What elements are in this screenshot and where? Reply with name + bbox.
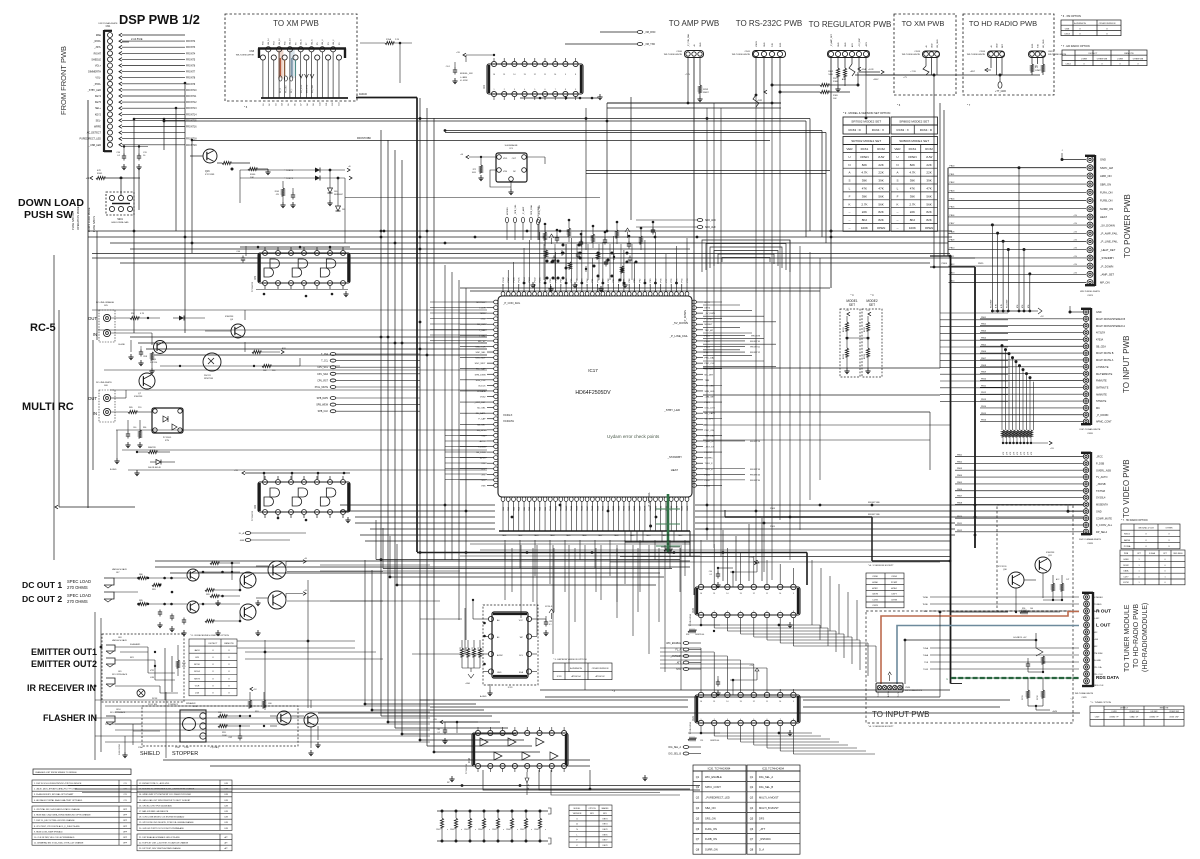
svg-text:AT24C02: AT24C02: [595, 675, 605, 678]
connector CN28 TO VIDEO PWB: [1090, 452, 1092, 535]
svg-text:RC-LINK-ORANGE: RC-LINK-ORANGE: [96, 301, 115, 304]
svg-text:C/M: C/M: [224, 822, 228, 824]
svg-text:SPB_LED: SPB_LED: [705, 391, 715, 393]
oval terminal group DIG_SEL: [683, 746, 689, 749]
svg-text:O: O: [1079, 34, 1081, 36]
svg-text:FL_A: FL_A: [239, 532, 245, 535]
svg-text:ROM2: ROM2: [1123, 565, 1128, 567]
wires into TO POWER PWB connector: [1062, 159, 1086, 161]
svg-text:KTA1298: KTA1298: [134, 395, 143, 398]
svg-text:MP_ON: MP_ON: [1100, 281, 1110, 285]
vertical drops from power wires to +5V rail: [991, 223, 994, 226]
svg-text:FRONT35: FRONT35: [750, 480, 761, 482]
svg-text:x: x: [447, 829, 448, 831]
svg-text:_USB_LED: _USB_LED: [88, 144, 101, 147]
buffer IC18 bottom: [472, 733, 568, 766]
svg-text:R102: R102: [450, 829, 454, 831]
svg-text:A VERSION: A VERSION: [1074, 22, 1086, 25]
svg-text:PA35: PA35: [681, 505, 684, 511]
wires connecting bottom ICs to IC17 area: [722, 530, 724, 581]
svg-text:Q8: Q8: [750, 848, 754, 852]
svg-text:GND: GND: [1096, 311, 1102, 314]
svg-text:FROM FRONT PWB: FROM FRONT PWB: [59, 46, 68, 115]
svg-text:RC64: RC64: [864, 353, 866, 359]
svg-text:FRONT6: FRONT6: [186, 66, 196, 68]
svg-text:OTHER VERSION: OTHER VERSION: [592, 668, 609, 670]
svg-text:18. CON & USB MODEL COLTE/Z963: 18. CON & USB MODEL COLTE/Z963 MODA ADD: [139, 816, 185, 819]
wires from CN1 to FRONT net labels: [122, 34, 185, 36]
svg-text:AT24C04: AT24C04: [571, 675, 581, 678]
svg-text:* 6: * 6: [244, 105, 248, 109]
svg-text:FLRB_ON: FLRB_ON: [705, 837, 717, 841]
svg-text:POWA: POWA: [1124, 545, 1131, 548]
svg-text:GND: GND: [764, 42, 766, 47]
eeprom IC19: [492, 612, 528, 678]
resistor R65: [111, 411, 128, 413]
svg-text:AC_DETECT: AC_DETECT: [87, 132, 102, 135]
svg-text:AVSS: AVSS: [480, 457, 486, 460]
emitter wires: [115, 646, 148, 648]
svg-text:DSP-TLINAD-WHITE: DSP-TLINAD-WHITE: [1080, 428, 1101, 431]
svg-text:JUMP: JUMP: [1035, 70, 1041, 72]
svg-text:MD_SET: MD_SET: [705, 369, 715, 371]
svg-text:23. DIP TEST, DRV JI98/78-/H78: 23. DIP TEST, DRV JI98/78-/H78B/B CHANGE: [139, 847, 181, 850]
svg-text:14: 14: [513, 74, 515, 76]
svg-text:TO XM PWB: TO XM PWB: [902, 19, 945, 28]
capacitor near IC5: [245, 246, 247, 256]
svg-text:FA05: FA05: [566, 534, 570, 537]
svg-text:A-GND: A-GND: [480, 695, 487, 698]
svg-text:RC/JUMP: RC/JUMP: [990, 299, 992, 308]
svg-text:1: 1: [1138, 582, 1139, 584]
svg-text:12: 12: [534, 74, 536, 76]
svg-text:FRONT4: FRONT4: [186, 53, 196, 55]
eeprom cap: [544, 621, 548, 623]
svg-text:VER: VER: [894, 147, 901, 151]
svg-text:KEY: KEY: [130, 657, 135, 659]
svg-text:8K2: 8K2: [862, 218, 868, 222]
svg-text:OPEN: OPEN: [877, 226, 886, 230]
svg-text:G5: G5: [288, 103, 290, 106]
bus horizontal y231: [88, 230, 952, 232]
svg-text:_PUREDIRECT_LED: _PUREDIRECT_LED: [704, 796, 730, 800]
svg-text:PB01: PB01: [981, 317, 987, 319]
svg-text:T_JDA: T_JDA: [321, 353, 328, 356]
svg-text:G1: G1: [263, 103, 265, 106]
svg-text:Q6: Q6: [750, 827, 754, 831]
extra verticals below IC17: [511, 548, 513, 592]
svg-text:* 7 . HD RADIO OPTION: * 7 . HD RADIO OPTION: [1061, 44, 1090, 48]
flasher wires: [115, 723, 142, 725]
junction dots on vertical bundles: [419, 248, 422, 251]
svg-text:FRONT3: FRONT3: [186, 47, 196, 49]
svg-text:G2: G2: [269, 103, 271, 106]
svg-text:MODEL: MODEL: [574, 808, 581, 810]
svg-text:RC/JUMP: RC/JUMP: [1006, 299, 1008, 308]
svg-text:2-10.5V/E: 2-10.5V/E: [131, 37, 143, 41]
svg-text:SEL+: SEL+: [95, 107, 102, 110]
svg-text:9: 9: [565, 74, 566, 76]
svg-text:MC: MC: [1094, 632, 1098, 634]
svg-text:SR8002 MODE2 SET: SR8002 MODE2 SET: [899, 120, 929, 124]
gnd shield: [124, 736, 126, 752]
svg-text:PUSH SW: PUSH SW: [24, 209, 73, 221]
svg-text:DETECT: DETECT: [209, 643, 218, 645]
svg-text:_STANDBY: _STANDBY: [1099, 256, 1114, 260]
svg-text:KEY4: KEY4: [95, 95, 102, 98]
svg-text:VOL+: VOL+: [95, 65, 102, 68]
diode D5 rc5: [173, 317, 179, 319]
svg-text:Uydam error check points: Uydam error check points: [607, 434, 660, 439]
svg-text:FRONT10: FRONT10: [750, 341, 761, 343]
colored wire red XM: [279, 58, 281, 76]
svg-text:TUNE: TUNE: [923, 597, 929, 599]
flasher speaker box: [180, 710, 206, 742]
vertical bundle x95-120 bottom left: [94, 612, 96, 760]
svg-text:P102: P102: [534, 277, 536, 283]
svg-text:NC_CLK: NC_CLK: [477, 324, 486, 326]
svg-text:5: 5: [753, 719, 754, 721]
svg-text:* 9 . MODEL & VERSION SET OPTI: * 9 . MODEL & VERSION SET OPTION: [843, 111, 890, 115]
svg-text:OTHER VER: OTHER VER: [1133, 59, 1144, 61]
svg-text:LINKED : PP: LINKED : PP: [1149, 717, 1158, 719]
svg-text:1: 1: [1138, 559, 1139, 561]
wires from IC20 right edge to input connector: [819, 625, 821, 640]
connector CN14 TO HD RADIO PWB: [988, 51, 1005, 58]
svg-text:_AMP_SET: _AMP_SET: [1099, 273, 1114, 277]
svg-text:4. HD RADIO PORTAL SEAL DUAL/T: 4. HD RADIO PORTAL SEAL DUAL/TEST OPTN A…: [34, 799, 83, 802]
svg-text:G6: G6: [294, 103, 296, 106]
svg-text:_SST_ST: _SST_ST: [704, 447, 715, 449]
bus horizontal y505-532 under IC17: [340, 504, 495, 506]
svg-text:* 7 . HD RADIO OPTION: * 7 . HD RADIO OPTION: [1121, 519, 1148, 522]
svg-text:270 OHMS: 270 OHMS: [67, 585, 88, 590]
bus lines y253-267 left to center: [92, 253, 950, 255]
svg-text:PUSH S/W OUT: PUSH S/W OUT: [71, 211, 75, 230]
junction wiring rc5 mid: [160, 365, 300, 367]
svg-text:RDS CLK: RDS CLK: [1094, 685, 1104, 687]
svg-text:Q2: Q2: [750, 785, 754, 789]
svg-text:L-MC: L-MC: [1094, 618, 1100, 620]
svg-text:PB25: PB25: [978, 263, 984, 265]
svg-text:1. DSP 9L 9CH LCD8624TMY/VC-/9: 1. DSP 9L 9CH LCD8624TMY/VC-/9TF7100 DEV…: [34, 783, 82, 785]
svg-text:PA29: PA29: [649, 505, 652, 511]
svg-text:4.7K: 4.7K: [909, 171, 915, 175]
svg-text:A-GND: A-GND: [887, 691, 890, 697]
long wires lower area to right: [420, 699, 688, 701]
XM connector bottom bus: [261, 97, 348, 99]
tuner area misc wiring: [905, 640, 1036, 684]
svg-text:_HEAT_DET: _HEAT_DET: [1099, 248, 1116, 252]
svg-text:0: 0: [1138, 576, 1139, 578]
svg-text:C/M: C/M: [224, 800, 228, 802]
svg-text:FA02: FA02: [518, 534, 522, 537]
svg-text:R72: R72: [473, 169, 476, 171]
svg-text:56K: 56K: [926, 194, 931, 198]
svg-text:IR RECEIVER IN: IR RECEIVER IN: [27, 683, 96, 693]
svg-text:TC74HC4094: TC74HC4094: [690, 721, 692, 734]
wires from IC17 top pins upward: [502, 284, 504, 286]
svg-text:A5V: A5V: [851, 43, 854, 47]
verticals lower-left: [165, 692, 167, 758]
svg-text:10. CLK FILTER, VIDL COI LEVT/: 10. CLK FILTER, VIDL COI LEVT/KBNB ADD: [34, 836, 75, 839]
svg-text:DATA: DATA: [1124, 570, 1129, 573]
svg-text:PB12: PB12: [981, 392, 987, 394]
diode D4 key cluster: [337, 178, 339, 206]
wires left edge to bottom: [164, 648, 166, 700]
horizontal lines under buffer IC: [68, 785, 700, 787]
vertical bus upper x948: [947, 168, 949, 256]
svg-text:PRC_ON: PRC_ON: [705, 430, 715, 432]
arrow +B key cluster: [347, 168, 350, 172]
svg-text:CN7B: CN7B: [872, 594, 878, 596]
svg-text:K: K: [848, 202, 850, 206]
svg-text:OTHER VER: OTHER VER: [1169, 711, 1180, 713]
svg-text:FRONT5: FRONT5: [186, 59, 196, 61]
terminal _XM_TXD: [637, 43, 643, 46]
svg-text:MARKS: MARKS: [602, 807, 609, 810]
svg-text:DFS: DFS: [759, 816, 764, 820]
svg-text:9: 9: [793, 593, 794, 595]
dashed box TO HD RADIO PWB: [963, 14, 1054, 95]
svg-text:FA06: FA06: [582, 534, 586, 537]
svg-text:10: 10: [779, 593, 781, 595]
svg-text:XM_4: XM_4: [322, 39, 324, 45]
multi rc gnd: [116, 430, 118, 458]
svg-text:XM_6: XM_6: [311, 39, 313, 45]
svg-text:_P_CON_FAIL: _P_CON_FAIL: [687, 33, 690, 48]
svg-text:DSP-CLEMAR-WHITE: DSP-CLEMAR-WHITE: [1079, 538, 1102, 541]
wire FRONT15B long: [192, 140, 770, 142]
svg-text:4.7K: 4.7K: [140, 313, 145, 315]
jack DC OUT 1: [104, 578, 114, 585]
svg-text:9: 9: [575, 89, 576, 91]
svg-text:3: 3: [727, 719, 728, 721]
svg-text:PB06: PB06: [957, 489, 963, 491]
svg-text:(HD-RADIOMODULE): (HD-RADIOMODULE): [1142, 603, 1149, 672]
bottom-left long horizontals lower: [95, 699, 430, 701]
svg-text:CN14: CN14: [1065, 64, 1071, 66]
svg-text:SPKC_CONT: SPKC_CONT: [705, 785, 721, 789]
wires center to tuner area: [540, 689, 950, 691]
svg-text:A: A: [848, 171, 850, 175]
svg-text:Q7: Q7: [750, 837, 754, 841]
svg-text:T_DWN: T_DWN: [478, 447, 486, 449]
svg-text:_XM_RXD: _XM_RXD: [643, 31, 656, 34]
svg-text:G3: G3: [275, 103, 277, 106]
connector CN26 TO INPUT PWB: [1090, 308, 1092, 425]
svg-text:TU6A: TU6A: [923, 654, 929, 657]
svg-text:WR-TLINSK-WHITE: WR-TLINSK-WHITE: [732, 54, 751, 56]
transistor q dc2 c: [268, 591, 286, 609]
svg-text:SBA_ON: SBA_ON: [705, 806, 716, 810]
wire vertical x607: [606, 103, 608, 231]
bus pair y130-132: [445, 130, 822, 132]
capacitor C30 near CN1: [122, 146, 148, 148]
svg-text:PB12: PB12: [705, 341, 711, 343]
svg-text:17. BA3 4/49 BBD LHE MELETE: 17. BA3 4/49 BBD LHE MELETE: [139, 810, 169, 813]
diode D3 key cluster: [329, 170, 331, 188]
resistor R15A right of XM box: [360, 42, 385, 44]
svg-text:8K2: 8K2: [910, 218, 916, 222]
component cluster above IC17: [543, 232, 546, 240]
svg-text:4: 4: [740, 611, 741, 613]
svg-text:NTR: NTR: [676, 669, 681, 671]
svg-text:KEY7: KEY7: [603, 840, 608, 842]
svg-text:Q16: Q16: [205, 170, 210, 173]
svg-text:LCDR: LCDR: [480, 308, 486, 310]
svg-text:x: x: [489, 829, 490, 831]
svg-text:REMOTE: REMOTE: [1124, 53, 1134, 55]
svg-text:SB_SET: SB_SET: [477, 424, 486, 426]
svg-text:8: 8: [575, 74, 576, 76]
resistor RS232 line1: [772, 84, 820, 86]
svg-text:RC63 : X: RC63 : X: [897, 128, 909, 132]
svg-text:7: 7: [555, 89, 556, 91]
svg-text:* 5 . TUNER OPTION: * 5 . TUNER OPTION: [1090, 702, 1111, 704]
svg-text:PB05: PB05: [981, 344, 987, 346]
wires lower right loops: [820, 560, 958, 625]
dashed box TO XM PWB: [225, 14, 357, 101]
svg-text:SC/PRC: SC/PRC: [705, 458, 714, 460]
svg-text:IC21 TC74HC4094: IC21 TC74HC4094: [762, 767, 785, 771]
IC20 support parts: [754, 561, 757, 565]
svg-text:x: x: [517, 829, 518, 831]
opto coupler PC7: [152, 408, 183, 433]
svg-text:U VER: U VER: [1081, 59, 1088, 61]
svg-text:LINKED : PP: LINKED : PP: [1109, 717, 1118, 719]
svg-text:2: 2: [714, 719, 715, 721]
dc2 wires: [199, 603, 240, 605]
svg-text:+7V: +7V: [903, 77, 907, 79]
svg-text:G8: G8: [307, 103, 309, 106]
svg-text:82K: 82K: [910, 163, 915, 167]
svg-text:OPP: OPP: [123, 837, 128, 839]
svg-text:PB33: PB33: [705, 485, 711, 487]
svg-text:EMITTER OUT2: EMITTER OUT2: [31, 659, 97, 669]
svg-text:CN26: CN26: [1087, 433, 1093, 435]
svg-text:2.7K: 2.7K: [861, 202, 867, 206]
svg-text:L/TRMUTE: L/TRMUTE: [1096, 366, 1109, 369]
svg-text:K: K: [896, 202, 898, 206]
jack emitter 2: [106, 658, 115, 664]
svg-text:WIC_ENABLE: WIC_ENABLE: [666, 642, 681, 645]
transistor Q7 multi: [139, 373, 155, 389]
svg-text:--: --: [897, 218, 899, 222]
svg-text:PHOTO: PHOTO: [204, 375, 212, 377]
resistor RS232 line2: [780, 91, 820, 93]
wire key cluster down: [344, 178, 346, 243]
svg-text:6: 6: [767, 611, 768, 613]
svg-text:O: O: [212, 664, 214, 666]
svg-text:39K: 39K: [910, 179, 915, 183]
table model option marks: [569, 805, 612, 847]
svg-text:* 7 KEY9: * 7 KEY9: [284, 178, 294, 180]
svg-text:S901: S901: [117, 218, 123, 221]
svg-text:PA27: PA27: [638, 505, 641, 511]
svg-text:REMOTE: REMOTE: [224, 643, 234, 645]
svg-text:R96: R96: [1022, 608, 1025, 610]
svg-text:TO POWER PWB: TO POWER PWB: [1123, 194, 1132, 258]
connector CN15 TO HD RADIO PWB: [1029, 51, 1046, 58]
svg-text:_DM_SET: _DM_SET: [704, 397, 716, 399]
svg-text:R105: R105: [492, 829, 496, 831]
svg-text:1: 1: [701, 611, 702, 613]
svg-text:GND: GND: [481, 319, 486, 321]
dc1 wires: [199, 571, 240, 573]
svg-text:CN7T: CN7T: [891, 594, 897, 596]
svg-text:FLASHER IN: FLASHER IN: [43, 713, 97, 723]
svg-text:STMUTE: STMUTE: [1096, 400, 1107, 403]
svg-text:RC-LINK-WHITE: RC-LINK-WHITE: [96, 382, 112, 384]
svg-text:Q5: Q5: [696, 816, 700, 820]
svg-text:PB02: PB02: [957, 461, 963, 463]
svg-text:P_CAP: P_CAP: [478, 418, 486, 421]
transistor tuner Q31: [1035, 557, 1051, 573]
svg-text:0.1: 0.1: [438, 732, 441, 734]
svg-text:GND: GND: [996, 43, 998, 48]
svg-text:FRONT2: FRONT2: [186, 41, 196, 43]
svg-text:OUT: OUT: [88, 316, 97, 321]
terminal column T_JDA group: [330, 353, 336, 356]
svg-text:39K: 39K: [926, 179, 931, 183]
svg-text:VOL-: VOL-: [95, 77, 101, 80]
svg-text:CN11: CN11: [745, 51, 751, 53]
svg-text:* A . 3 VERSION EXCEPT: * A . 3 VERSION EXCEPT: [868, 564, 894, 567]
svg-text:IN: IN: [93, 332, 97, 337]
svg-text:PA36: PA36: [686, 505, 689, 511]
connector CN10 TO AMP PWB: [685, 51, 704, 58]
svg-text:8: 8: [565, 89, 566, 91]
svg-text:22K: 22K: [878, 171, 883, 175]
svg-text:PB08: PB08: [981, 365, 987, 367]
svg-text:PUSH S/W IN: PUSH S/W IN: [92, 216, 96, 232]
wire pair y170-173: [586, 170, 830, 172]
svg-text:STEREO: STEREO: [1094, 597, 1103, 599]
svg-text:5: 5: [753, 611, 754, 613]
svg-text:B-GND: B-GND: [119, 344, 126, 346]
transistor q dc1 b: [240, 572, 256, 588]
svg-text:XM_2: XM_2: [333, 39, 335, 45]
svg-text:FA11: FA11: [662, 534, 666, 537]
svg-text:RC63 : D: RC63 : D: [848, 128, 861, 132]
heavy wire L from thick vertical to IC20: [417, 552, 807, 554]
svg-text:PB07: PB07: [981, 358, 987, 360]
svg-text:RC64 : D: RC64 : D: [920, 128, 933, 132]
svg-text:--: --: [897, 226, 899, 230]
svg-text:DIG_SEL_A: DIG_SEL_A: [759, 775, 773, 779]
svg-text:12: 12: [753, 701, 755, 703]
svg-text:HEAT: HEAT: [671, 468, 679, 472]
svg-text:SNC_SDT: SNC_SDT: [475, 358, 486, 360]
svg-text:SPEC LOAD: SPEC LOAD: [67, 593, 91, 598]
svg-text:XCDLK: XCDLK: [545, 606, 553, 608]
svg-text:KEY8: KEY8: [603, 829, 608, 831]
svg-text:56K: 56K: [878, 194, 883, 198]
svg-text:3: 3: [727, 611, 728, 613]
svg-text:FRONT28: FRONT28: [750, 441, 761, 443]
svg-text:RESV4047: RESV4047: [334, 194, 343, 196]
svg-text:--: --: [849, 226, 851, 230]
svg-text:2.5V/REC1: 2.5V/REC1: [168, 704, 179, 706]
svg-text:16: 16: [493, 74, 495, 76]
svg-text:CN30: CN30: [905, 687, 911, 689]
svg-text:Q3: Q3: [750, 796, 754, 800]
svg-text:6. HDMI SAT, CN42 30PA--9GH40: 6. HDMI SAT, CN42 30PA--9GH40 9ATB/C943 …: [34, 814, 91, 817]
svg-text:PB04: PB04: [957, 475, 963, 477]
svg-text:MULTI_A MO/ST: MULTI_A MO/ST: [759, 796, 779, 800]
svg-text:TXD: TXD: [772, 42, 774, 47]
